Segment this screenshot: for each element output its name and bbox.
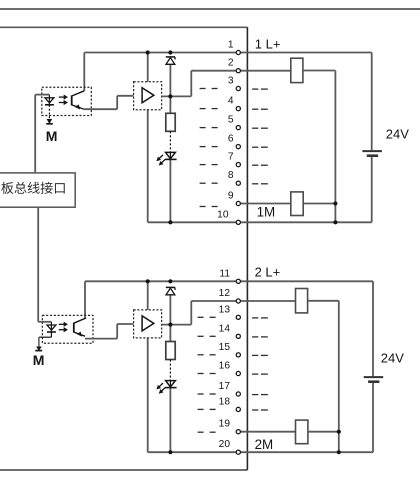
svg-text:2M: 2M (255, 437, 274, 452)
svg-text:M: M (46, 128, 58, 144)
svg-text:13: 13 (219, 304, 231, 315)
svg-text:24V: 24V (386, 126, 409, 141)
svg-text:1: 1 (228, 40, 234, 51)
svg-text:10: 10 (217, 209, 229, 220)
svg-text:1 L+: 1 L+ (255, 36, 281, 51)
svg-text:12: 12 (219, 288, 231, 299)
svg-text:7: 7 (228, 152, 234, 163)
svg-text:9: 9 (228, 191, 234, 202)
svg-text:14: 14 (219, 323, 231, 334)
svg-text:3: 3 (228, 76, 234, 87)
svg-text:4: 4 (228, 96, 234, 107)
svg-text:8: 8 (228, 170, 234, 181)
svg-text:15: 15 (219, 342, 231, 353)
svg-text:11: 11 (219, 268, 230, 279)
svg-text:19: 19 (219, 419, 231, 430)
svg-text:2 L+: 2 L+ (255, 265, 281, 280)
svg-text:2: 2 (228, 58, 234, 69)
svg-text:1M: 1M (257, 204, 276, 219)
svg-text:16: 16 (219, 361, 231, 372)
svg-text:5: 5 (228, 115, 234, 126)
svg-text:17: 17 (219, 381, 231, 392)
svg-text:18: 18 (219, 396, 231, 407)
svg-text:M: M (33, 352, 45, 368)
svg-text:20: 20 (219, 439, 231, 450)
svg-text:6: 6 (228, 134, 234, 145)
svg-text:24V: 24V (381, 351, 404, 366)
